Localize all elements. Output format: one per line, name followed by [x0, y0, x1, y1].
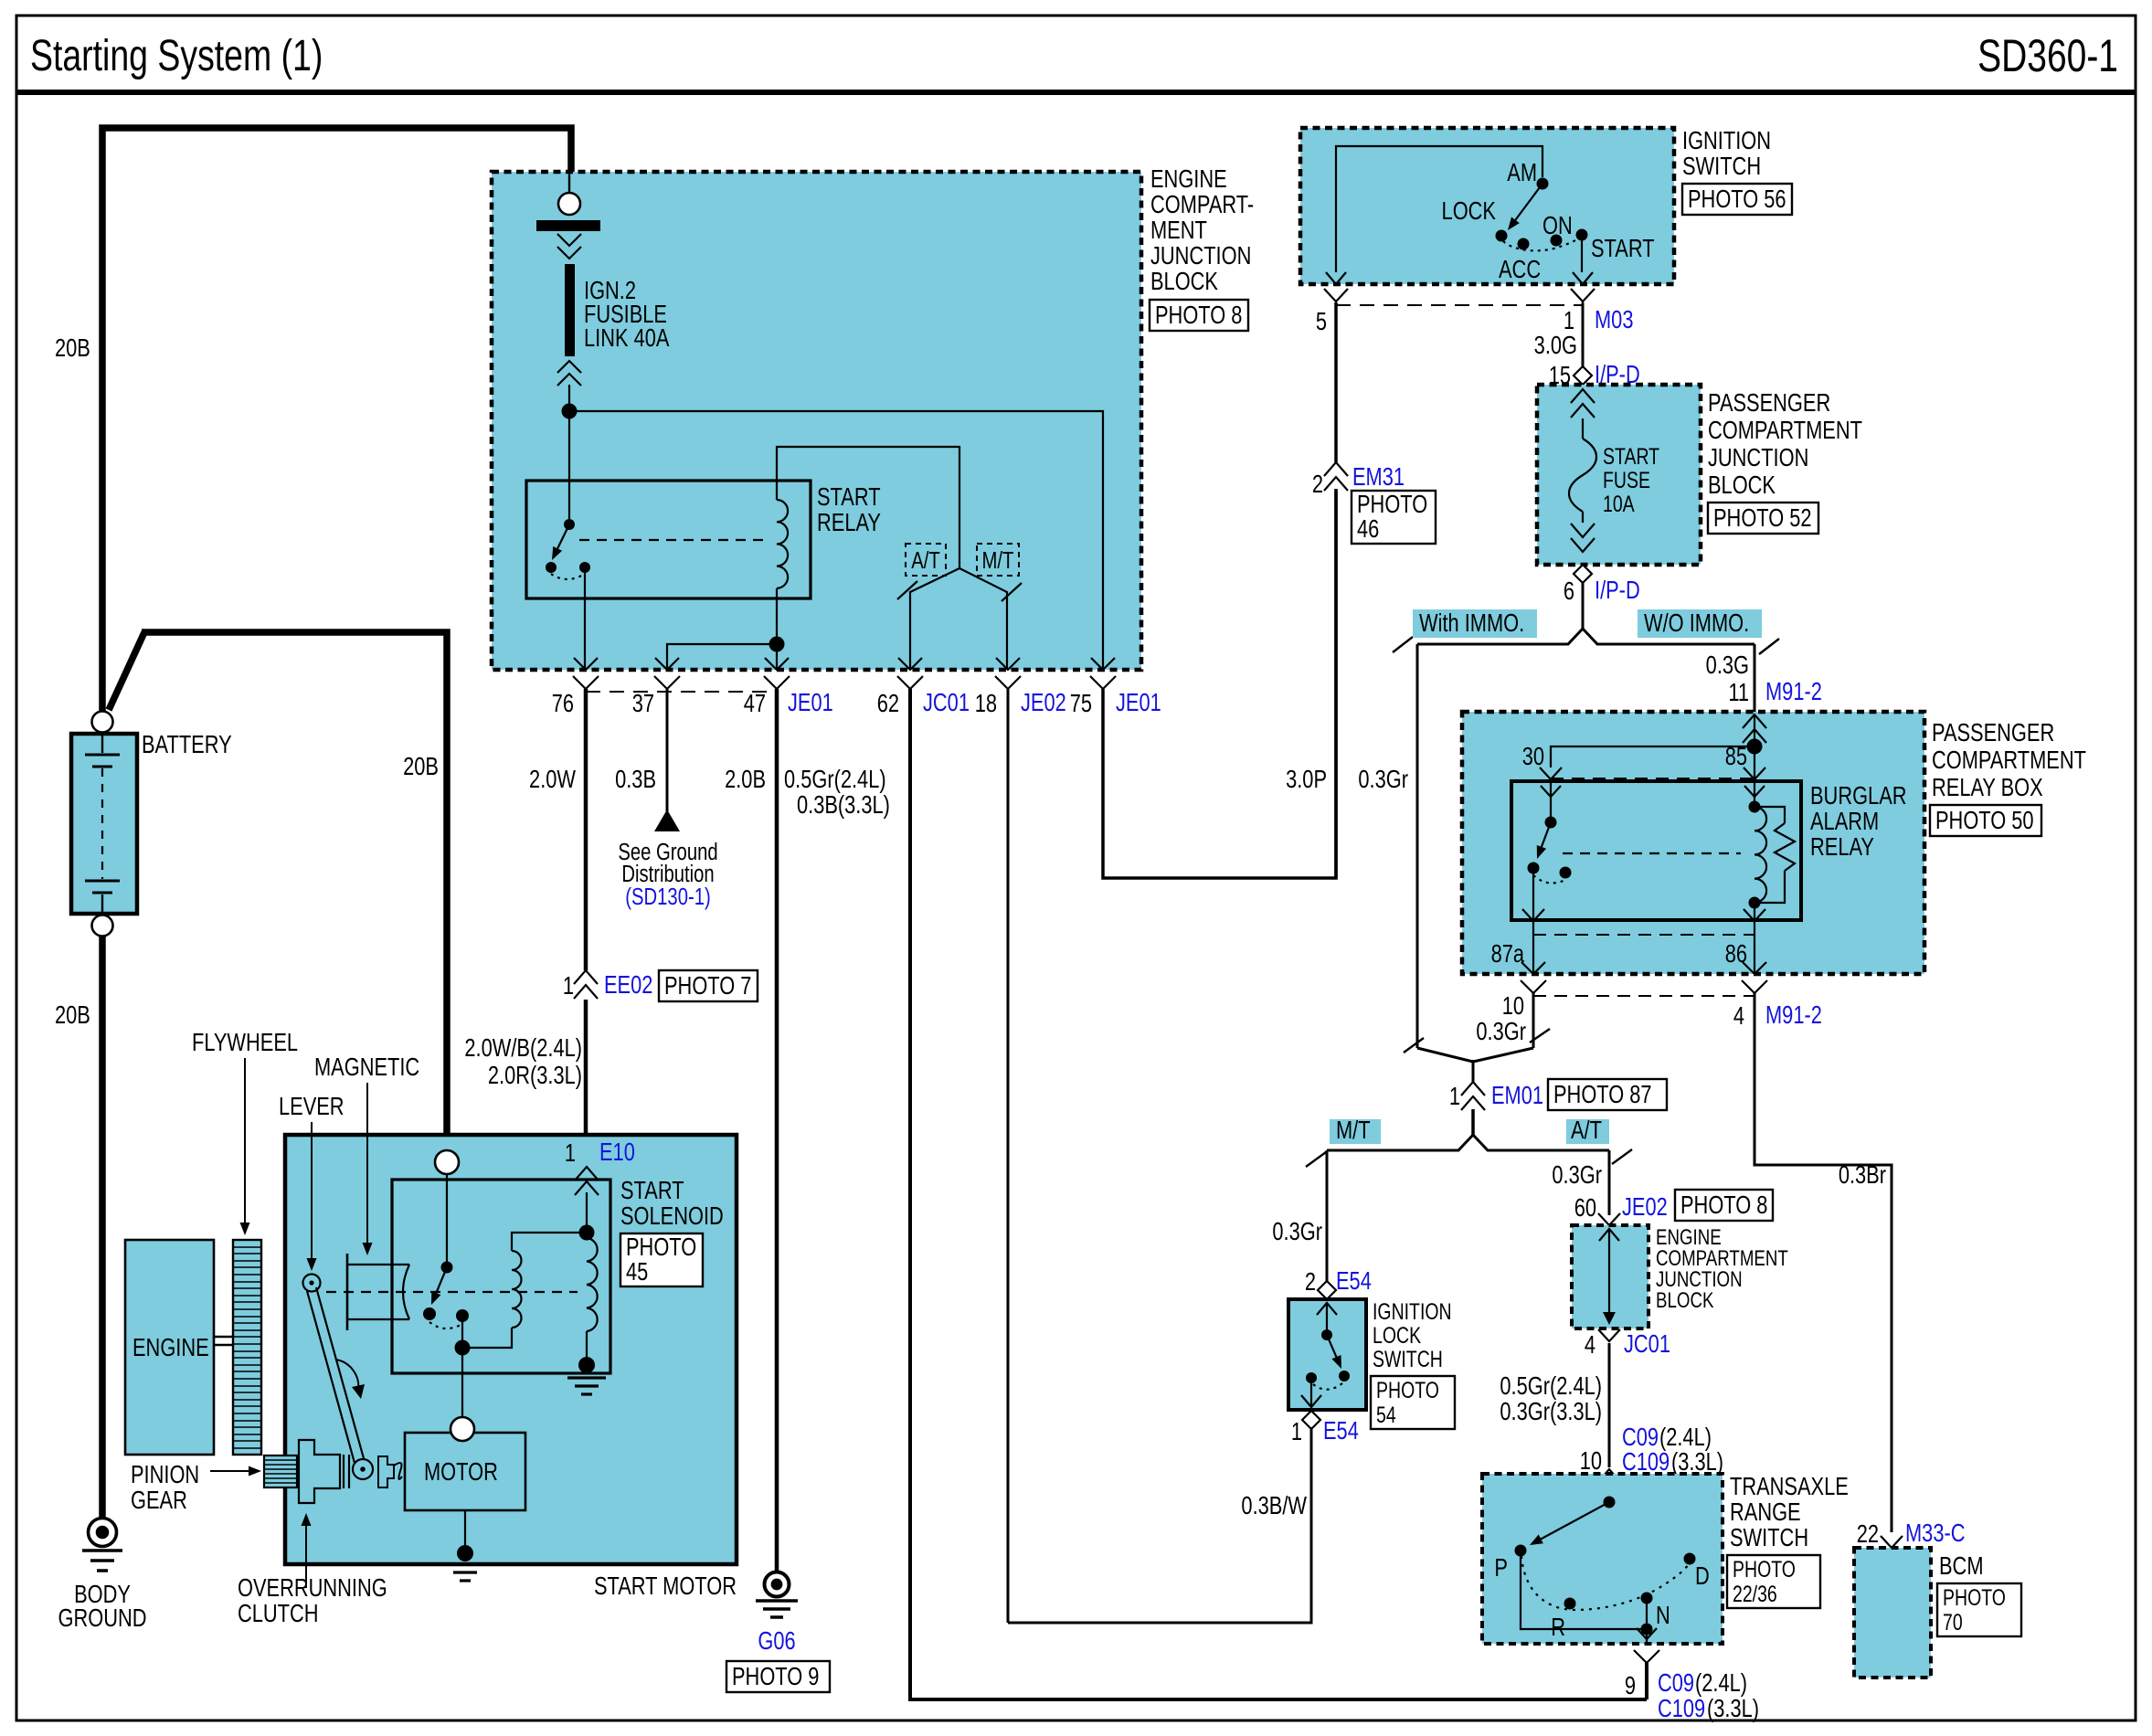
svg-text:COMPARTMENT: COMPARTMENT	[1932, 746, 2086, 774]
wire 0.3B/W to pin 18	[1008, 1427, 1311, 1623]
svg-text:37: 37	[632, 689, 654, 717]
svg-text:9: 9	[1625, 1671, 1636, 1699]
svg-text:START: START	[1591, 234, 1655, 262]
svg-text:EE02: EE02	[604, 970, 652, 999]
svg-text:PHOTO 8: PHOTO 8	[1680, 1191, 1767, 1219]
svg-text:M/T: M/T	[982, 547, 1014, 574]
svg-text:PINION: PINION	[131, 1460, 199, 1488]
svg-text:SWITCH: SWITCH	[1682, 152, 1761, 180]
relay START RELAY	[526, 481, 811, 598]
svg-text:PHOTO 52: PHOTO 52	[1713, 503, 1812, 532]
wire to pin 30	[1551, 746, 1754, 767]
junction block ENGINE COMPARTMENT JUNCTION BLOCK	[492, 172, 1141, 670]
relay box PASSENGER COMPARTMENT RELAY BOX	[1462, 712, 1924, 974]
photo ref PHOTO 50	[1930, 805, 2041, 836]
svg-text:ALARM: ALARM	[1810, 807, 1879, 835]
svg-text:20B: 20B	[55, 333, 90, 362]
svg-text:4: 4	[1585, 1330, 1595, 1359]
svg-text:85: 85	[1725, 742, 1747, 770]
relay pivot	[564, 519, 575, 530]
solenoid main contact feed	[446, 1174, 448, 1265]
wire coil to junction node	[776, 588, 778, 644]
svg-text:0.3Gr: 0.3Gr	[1272, 1217, 1322, 1245]
svg-text:SD360-1: SD360-1	[1977, 29, 2118, 81]
wire 2.0B pin47 to G06	[775, 689, 779, 1571]
svg-text:0.3Br: 0.3Br	[1839, 1160, 1886, 1189]
svg-text:M91-2: M91-2	[1765, 677, 1822, 705]
svg-text:20B: 20B	[55, 1000, 90, 1029]
svg-text:FLYWHEEL: FLYWHEEL	[192, 1028, 298, 1056]
ground G06	[765, 1572, 790, 1597]
svg-text:M33-C: M33-C	[1905, 1519, 1965, 1547]
wire 2.0W/B to E10	[584, 1000, 588, 1167]
wire 85	[1754, 746, 1755, 807]
motor MOTOR	[405, 1433, 525, 1510]
svg-text:START: START	[620, 1176, 684, 1204]
svg-text:MENT: MENT	[1150, 216, 1207, 244]
svg-text:M/T: M/T	[1336, 1116, 1371, 1144]
photo ref PHOTO 8	[1150, 300, 1248, 331]
svg-text:4: 4	[1733, 1001, 1744, 1030]
svg-text:10A: 10A	[1603, 492, 1635, 517]
wire 3.0G	[1582, 302, 1585, 366]
fusible link bus bar	[536, 220, 600, 231]
wire 0.3Gr M/T branch	[1326, 1150, 1329, 1283]
svg-text:With IMMO.: With IMMO.	[1419, 609, 1524, 637]
svg-text:AM: AM	[1507, 158, 1537, 186]
svg-text:LOCK: LOCK	[1373, 1323, 1421, 1349]
svg-text:3.0P: 3.0P	[1286, 765, 1327, 793]
svg-text:C109: C109	[1658, 1694, 1705, 1722]
svg-text:M03: M03	[1595, 305, 1633, 333]
photo ref PHOTO 52	[1708, 503, 1818, 534]
photo ref PHOTO 46	[1352, 491, 1436, 544]
wire fuse to start relay	[568, 385, 570, 523]
photo ref PHOTO 45	[620, 1233, 703, 1286]
svg-text:GEAR: GEAR	[131, 1486, 187, 1514]
svg-text:EM01: EM01	[1491, 1081, 1543, 1109]
connector 4 JC01	[1598, 1329, 1620, 1341]
svg-text:22/36: 22/36	[1733, 1582, 1777, 1607]
svg-text:1: 1	[1449, 1082, 1460, 1110]
photo ref PHOTO 70	[1937, 1583, 2021, 1636]
svg-text:20B: 20B	[403, 752, 439, 780]
junction block ENGINE COMPARTMENT JUNCTION BLOCK (small)	[1572, 1225, 1648, 1328]
svg-text:0.3B(3.3L): 0.3B(3.3L)	[797, 790, 890, 819]
svg-text:BLOCK: BLOCK	[1656, 1288, 1714, 1313]
svg-text:BATTERY: BATTERY	[142, 730, 232, 758]
svg-text:70: 70	[1943, 1610, 1963, 1635]
svg-text:2.0R(3.3L): 2.0R(3.3L)	[488, 1061, 582, 1089]
svg-text:G06: G06	[758, 1626, 795, 1655]
svg-text:46: 46	[1357, 514, 1379, 543]
svg-text:PASSENGER: PASSENGER	[1708, 388, 1830, 417]
svg-text:E54: E54	[1336, 1266, 1372, 1295]
module BCM	[1854, 1548, 1931, 1678]
svg-text:3.0G: 3.0G	[1534, 331, 1577, 359]
svg-text:E10: E10	[599, 1138, 635, 1166]
svg-text:0.3Gr: 0.3Gr	[1358, 765, 1408, 793]
svg-text:10: 10	[1502, 991, 1524, 1020]
svg-text:JC01: JC01	[923, 688, 970, 716]
svg-text:PHOTO: PHOTO	[1376, 1378, 1439, 1403]
svg-text:START: START	[1603, 444, 1659, 470]
rotation arrow	[336, 1360, 358, 1391]
lever	[303, 1275, 321, 1292]
title separator	[16, 90, 2136, 95]
wire contact to pin 76	[584, 567, 586, 670]
svg-text:PHOTO 87: PHOTO 87	[1553, 1080, 1652, 1108]
node solenoid battery terminal	[435, 1150, 459, 1174]
svg-text:54: 54	[1376, 1403, 1396, 1428]
svg-text:10: 10	[1580, 1446, 1602, 1475]
connector 1 E54	[1302, 1411, 1320, 1429]
pin 11 entry	[1743, 715, 1766, 728]
wire node to pin 37	[667, 644, 777, 670]
svg-text:W/O IMMO.: W/O IMMO.	[1644, 609, 1749, 637]
wire 0.3Gr With-IMMO branch	[1416, 644, 1419, 1048]
svg-text:1: 1	[565, 1138, 576, 1167]
svg-text:EM31: EM31	[1352, 462, 1405, 491]
svg-text:I/P-D: I/P-D	[1595, 576, 1640, 604]
photo ref PHOTO 9	[726, 1661, 830, 1692]
svg-text:SWITCH: SWITCH	[1373, 1347, 1443, 1372]
svg-text:(SD130-1): (SD130-1)	[625, 884, 710, 910]
connector pins 5 / 1 M03	[1324, 289, 1348, 302]
shaft	[214, 1336, 233, 1338]
relay coil + resistor	[1749, 801, 1761, 813]
node battery negative terminal	[92, 916, 113, 937]
merge to EM01	[1404, 1038, 1424, 1053]
svg-text:PHOTO 50: PHOTO 50	[1935, 806, 2034, 834]
svg-text:JE01: JE01	[788, 688, 833, 716]
wire E10 into solenoid	[586, 1192, 588, 1233]
svg-text:47: 47	[744, 689, 766, 717]
svg-text:C09: C09	[1658, 1668, 1694, 1697]
wire 0.3B pin37 to ground symbol	[666, 689, 669, 811]
svg-text:MAGNETIC: MAGNETIC	[314, 1053, 419, 1081]
svg-text:IGNITION: IGNITION	[1373, 1299, 1452, 1325]
node terminal stud	[568, 172, 570, 194]
svg-text:2.0W/B(2.4L): 2.0W/B(2.4L)	[464, 1033, 582, 1062]
P to output	[1521, 1556, 1647, 1629]
solenoid hold-in coil	[587, 1238, 598, 1331]
svg-text:JUNCTION: JUNCTION	[1708, 443, 1808, 471]
svg-text:A/T: A/T	[911, 547, 940, 574]
svg-text:MOTOR: MOTOR	[424, 1457, 498, 1486]
linkage dashed	[326, 1291, 578, 1293]
solenoid armature / magnetic switch	[346, 1254, 349, 1330]
svg-text:Starting System (1): Starting System (1)	[30, 32, 323, 81]
switch IGNITION LOCK SWITCH	[1288, 1299, 1366, 1410]
connector pins 76 37 47 JE01 62 JC01 18 JE02 75 JE01	[574, 658, 598, 670]
svg-text:0.3Gr: 0.3Gr	[1476, 1017, 1526, 1045]
svg-text:PHOTO: PHOTO	[1943, 1585, 2006, 1611]
photo ref PHOTO 54	[1371, 1376, 1455, 1429]
svg-text:COMPART-: COMPART-	[1150, 190, 1254, 218]
svg-text:1: 1	[1291, 1417, 1302, 1445]
svg-text:2: 2	[1312, 470, 1323, 498]
svg-text:LOCK: LOCK	[1442, 196, 1497, 225]
relay switch arm	[557, 524, 569, 548]
box START MOTOR	[285, 1135, 737, 1564]
battery cell plates	[101, 734, 103, 753]
svg-text:PHOTO 9: PHOTO 9	[732, 1662, 819, 1690]
node junction	[562, 404, 578, 419]
svg-text:0.3B: 0.3B	[615, 765, 656, 793]
wire 20B battery to start motor cable	[109, 632, 144, 710]
branch With IMMO / W/O IMMO	[1582, 583, 1585, 629]
wire 0.3Gr A/T branch	[1608, 1150, 1611, 1215]
svg-text:60: 60	[1574, 1193, 1596, 1222]
svg-text:IGNITION: IGNITION	[1682, 126, 1771, 154]
battery BATTERY box	[71, 734, 137, 914]
svg-text:JE02: JE02	[1622, 1192, 1668, 1221]
photo ref PHOTO 7	[659, 970, 758, 1001]
svg-text:62: 62	[877, 689, 899, 717]
photo ref PHOTO 22/36	[1727, 1555, 1820, 1608]
svg-text:P: P	[1494, 1553, 1508, 1582]
pin 86	[1754, 903, 1755, 974]
svg-text:JC01: JC01	[1624, 1329, 1670, 1358]
svg-text:TRANSAXLE: TRANSAXLE	[1730, 1472, 1849, 1500]
photo ref PHOTO 56	[1682, 184, 1792, 215]
svg-text:SWITCH: SWITCH	[1730, 1523, 1808, 1551]
connector 6 I/P-D	[1574, 565, 1592, 583]
svg-text:FUSE: FUSE	[1603, 468, 1650, 493]
svg-text:30: 30	[1522, 742, 1544, 770]
svg-text:START MOTOR: START MOTOR	[594, 1572, 737, 1600]
svg-text:RELAY: RELAY	[1810, 832, 1874, 861]
overrunning clutch	[299, 1440, 340, 1503]
svg-text:START: START	[817, 482, 881, 511]
wire 20B battery positive cable (top loop to junction block)	[102, 128, 571, 715]
svg-text:45: 45	[626, 1257, 648, 1286]
A/T M/T branch select	[906, 544, 946, 576]
svg-text:PASSENGER: PASSENGER	[1932, 718, 2054, 746]
wire 0.3B pin18 down (M/T path)	[1007, 689, 1010, 1623]
svg-text:87a: 87a	[1491, 939, 1524, 968]
svg-text:PHOTO: PHOTO	[1733, 1557, 1796, 1583]
solenoid START SOLENOID box	[392, 1180, 610, 1373]
svg-text:LINK 40A: LINK 40A	[584, 323, 670, 352]
M/T A/T split	[1471, 1109, 1475, 1135]
wire pin 4 M91-2 0.3Br	[1754, 993, 1892, 1532]
wire 0.5Gr/0.3Gr to transaxle	[1608, 1343, 1611, 1467]
svg-text:D: D	[1695, 1561, 1710, 1590]
svg-text:M91-2: M91-2	[1765, 1000, 1822, 1029]
switch IGNITION SWITCH	[1300, 128, 1674, 284]
wire 3.0P pin75 loop to EM31	[1103, 489, 1336, 878]
node battery positive terminal	[92, 712, 113, 733]
svg-text:LEVER: LEVER	[279, 1092, 345, 1120]
svg-text:R: R	[1551, 1613, 1565, 1641]
svg-text:0.3G: 0.3G	[1706, 651, 1749, 679]
pin 87a	[1532, 873, 1534, 974]
junction block PASSENGER COMPARTMENT JUNCTION BLOCK	[1537, 385, 1701, 565]
svg-text:RELAY: RELAY	[817, 508, 881, 536]
ground BODY GROUND	[89, 1519, 117, 1547]
svg-text:COMPARTMENT: COMPARTMENT	[1708, 416, 1862, 444]
svg-text:0.3Gr: 0.3Gr	[1552, 1160, 1602, 1189]
svg-text:BCM: BCM	[1939, 1551, 1984, 1580]
relay linkage dashed	[579, 539, 766, 541]
svg-text:RANGE: RANGE	[1730, 1498, 1801, 1526]
svg-text:A/T: A/T	[1571, 1116, 1602, 1144]
svg-text:RELAY BOX: RELAY BOX	[1932, 773, 2043, 801]
connector 9 C09/C109	[1634, 1650, 1659, 1663]
solenoid motor junction	[461, 1321, 463, 1417]
contacts P R N D	[1515, 1545, 1527, 1557]
svg-text:2.0W: 2.0W	[529, 765, 576, 793]
svg-text:2.0B: 2.0B	[725, 765, 766, 793]
engine ENGINE box	[125, 1240, 214, 1455]
wire 0.3G to pin 11	[1754, 644, 1756, 715]
svg-text:0.3B/W: 0.3B/W	[1241, 1491, 1307, 1519]
svg-text:1: 1	[563, 971, 574, 1000]
wire coil feed to A/T-M/T select	[777, 447, 959, 568]
photo ref PHOTO 8	[1675, 1190, 1773, 1221]
svg-text:ENGINE: ENGINE	[1150, 164, 1227, 193]
fuse IGN.2 FUSIBLE LINK 40A	[565, 264, 575, 356]
svg-text:N: N	[1656, 1601, 1670, 1629]
relay BURGLAR ALARM RELAY	[1511, 781, 1801, 920]
fuse START FUSE 10A	[1571, 389, 1595, 403]
relay linkage dashed	[1563, 852, 1741, 854]
relay contact arc	[551, 574, 585, 579]
photo ref PHOTO 87	[1548, 1079, 1667, 1110]
svg-text:(3.3L): (3.3L)	[1707, 1694, 1759, 1722]
svg-text:0.5Gr(2.4L): 0.5Gr(2.4L)	[784, 765, 886, 793]
svg-text:0.5Gr(2.4L): 0.5Gr(2.4L)	[1500, 1371, 1602, 1400]
svg-text:BLOCK: BLOCK	[1708, 471, 1776, 499]
svg-text:75: 75	[1070, 689, 1092, 717]
svg-text:22: 22	[1857, 1519, 1879, 1548]
solenoid pull-in coil	[512, 1233, 587, 1251]
svg-text:PHOTO 8: PHOTO 8	[1155, 301, 1242, 329]
svg-text:18: 18	[975, 689, 997, 717]
svg-text:BURGLAR: BURGLAR	[1810, 781, 1907, 810]
wire 20B battery negative to body ground	[99, 937, 106, 1519]
svg-text:76: 76	[552, 689, 574, 717]
svg-text:ON: ON	[1542, 211, 1573, 239]
svg-text:0.3Gr(3.3L): 0.3Gr(3.3L)	[1500, 1397, 1602, 1425]
wire 0.3Gr 87a to merge	[1532, 993, 1535, 1048]
svg-text:GROUND: GROUND	[58, 1604, 146, 1632]
connector EE02	[574, 970, 598, 984]
wire node to pin 47	[776, 644, 778, 670]
connector 15 I/P-D	[1574, 366, 1592, 385]
svg-text:ENGINE: ENGINE	[133, 1333, 209, 1361]
ground see-ground-distribution triangle	[654, 810, 680, 831]
connector EM01	[1461, 1082, 1485, 1096]
svg-text:PHOTO 56: PHOTO 56	[1688, 185, 1786, 213]
pinion gear	[264, 1455, 297, 1487]
svg-text:JE02: JE02	[1021, 688, 1066, 716]
svg-text:E54: E54	[1323, 1416, 1359, 1445]
wire junction to pin 75	[569, 411, 1103, 670]
svg-text:ACC: ACC	[1499, 255, 1541, 283]
svg-text:2: 2	[1305, 1267, 1316, 1296]
svg-text:6: 6	[1564, 577, 1574, 605]
wire 3.0P ignition to EM31	[1334, 302, 1338, 462]
svg-text:PHOTO 7: PHOTO 7	[664, 971, 751, 1000]
svg-text:SOLENOID: SOLENOID	[620, 1201, 724, 1230]
switch wiring	[1336, 146, 1542, 272]
wire 0.5Gr pin62 down and bottom bus to transaxle	[910, 689, 1647, 1699]
switch TRANSAXLE RANGE SWITCH	[1482, 1474, 1723, 1644]
svg-text:BLOCK: BLOCK	[1150, 267, 1218, 295]
flywheel gear	[233, 1240, 261, 1455]
relay coil	[777, 500, 788, 588]
svg-text:JE01: JE01	[1116, 688, 1161, 716]
svg-text:(2.4L): (2.4L)	[1695, 1668, 1747, 1697]
svg-text:5: 5	[1316, 307, 1327, 335]
svg-text:11: 11	[1728, 678, 1749, 706]
svg-text:JUNCTION: JUNCTION	[1150, 241, 1251, 270]
svg-text:OVERRUNNING: OVERRUNNING	[238, 1573, 387, 1602]
wire 2.0W pin76 to EE02	[584, 689, 588, 970]
svg-text:CLUTCH: CLUTCH	[238, 1599, 319, 1627]
